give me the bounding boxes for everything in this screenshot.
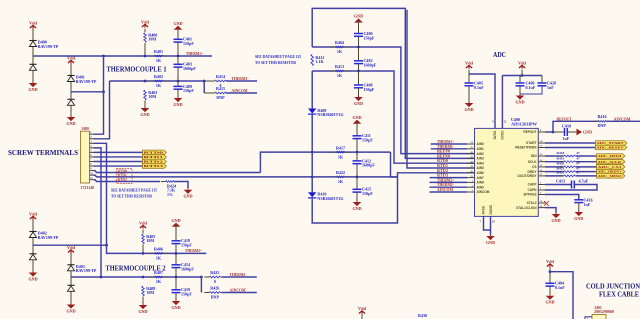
capacitor C403 1600pF xyxy=(174,62,197,71)
capacitor C400 150pF xyxy=(354,31,375,40)
wire D401 junction row xyxy=(71,91,104,93)
svg-text:2005290060: 2005290060 xyxy=(594,310,614,314)
ground above C401 xyxy=(173,21,182,32)
svg-text:GND: GND xyxy=(173,102,182,107)
net label RTD0 row xyxy=(437,158,448,163)
junction D402/pin3 xyxy=(105,244,108,247)
svg-text:THERM1-: THERM1- xyxy=(232,76,249,81)
net flag ADC_DRDY1 xyxy=(597,169,625,174)
diode D401 lower half xyxy=(67,99,74,105)
svg-text:1600pF: 1600pF xyxy=(364,63,377,68)
svg-text:R414: R414 xyxy=(216,74,225,79)
svg-text:ADC_SCLK: ADC_SCLK xyxy=(598,161,623,164)
U400 bottom pin names AVSS DGND xyxy=(482,204,494,214)
svg-text:Vdd: Vdd xyxy=(546,259,554,264)
diode D400 lower half xyxy=(29,64,36,70)
svg-text:GND: GND xyxy=(464,107,473,112)
wire D402 mid xyxy=(32,238,34,254)
svg-text:GND: GND xyxy=(545,300,554,305)
U400 right pin names xyxy=(515,130,537,210)
svg-text:0.1uF: 0.1uF xyxy=(555,285,565,290)
wire Vdd bottom stem xyxy=(361,314,363,319)
svg-text:C413: C413 xyxy=(556,178,565,183)
svg-text:FLEX CABLE: FLEX CABLE xyxy=(599,291,639,299)
svg-text:GND: GND xyxy=(486,240,495,245)
wire D401 stem xyxy=(70,64,72,76)
net flag ADC_CS1 xyxy=(597,165,625,170)
title THERMOCOUPLE 1 xyxy=(107,65,167,74)
junction REFOUT xyxy=(552,131,555,134)
net label REFOUT xyxy=(557,116,572,121)
power Vdd R400 xyxy=(141,19,149,27)
svg-text:GND: GND xyxy=(173,21,182,26)
svg-text:150pF: 150pF xyxy=(181,243,192,248)
resistor R404 1K xyxy=(331,40,349,54)
svg-text:THERM2-: THERM2- xyxy=(230,272,247,277)
svg-text:THERMOCOUPLE 1: THERMOCOUPLE 1 xyxy=(107,65,167,74)
junction C414/THERM2- xyxy=(175,276,178,279)
svg-text:1600pF: 1600pF xyxy=(362,163,375,168)
resistor R407 1K xyxy=(150,270,168,284)
capacitor C401 150pF xyxy=(174,37,195,46)
resistor R425 0 xyxy=(204,270,225,284)
svg-text:1uF: 1uF xyxy=(584,202,591,207)
net flag RTD3 xyxy=(143,164,167,169)
ground above C400 xyxy=(354,14,363,25)
svg-text:0.1uF: 0.1uF xyxy=(526,85,536,90)
wire C400 bottom lead xyxy=(358,36,360,47)
wire C414 bottom lead xyxy=(175,268,177,277)
wire C410 to gnd xyxy=(567,131,576,133)
resistor R405 10M xyxy=(142,234,156,244)
junction C411/R417 xyxy=(356,151,359,154)
net label AINCOM right xyxy=(614,116,631,121)
wire R414 out xyxy=(226,80,257,82)
svg-text:AIN8: AIN8 xyxy=(477,181,484,185)
capacitor C419 150pF xyxy=(172,287,193,296)
svg-text:RTD0: RTD0 xyxy=(144,151,165,155)
wire pin1 vertical xyxy=(94,56,104,134)
svg-text:REFOUT: REFOUT xyxy=(557,116,572,121)
net label THERM2- at ADC xyxy=(437,182,455,187)
svg-text:10M: 10M xyxy=(146,290,154,295)
svg-text:1%: 1% xyxy=(167,192,173,197)
junction C401/THERM1+ xyxy=(177,55,180,58)
resistor R401 1K xyxy=(150,49,168,63)
svg-text:1K: 1K xyxy=(338,154,344,159)
svg-text:GND: GND xyxy=(583,130,592,135)
power Vdd AVDD xyxy=(465,60,473,68)
junction R417 row xyxy=(311,151,314,154)
diode D402 lower half xyxy=(29,254,36,260)
wire ADC_CS1 left xyxy=(545,166,563,168)
svg-text:150pF: 150pF xyxy=(364,35,375,40)
net flag ADC_MISO xyxy=(597,174,625,179)
svg-text:R426: R426 xyxy=(210,286,219,291)
svg-text:47: 47 xyxy=(576,151,580,155)
capacitor C420 1uF xyxy=(538,80,557,89)
wire C401 bottom lead xyxy=(177,42,179,56)
junction THERM1+ / pin1 drop xyxy=(102,55,105,58)
svg-text:ADC: ADC xyxy=(493,50,506,59)
svg-text:AVDD: AVDD xyxy=(493,130,497,139)
wire R415 lead xyxy=(204,92,215,94)
svg-text:GND: GND xyxy=(574,216,583,221)
ground C416 xyxy=(574,211,583,221)
capacitor C410 1uF xyxy=(565,128,568,136)
wire AVSS down xyxy=(484,216,491,230)
wire DVDD drop xyxy=(501,76,503,129)
svg-text:RTD1: RTD1 xyxy=(144,155,165,159)
power Vdd D402 xyxy=(29,211,37,219)
svg-text:R419: R419 xyxy=(557,157,565,161)
svg-text:AINCOM: AINCOM xyxy=(437,187,453,192)
svg-text:1K: 1K xyxy=(338,179,344,184)
wire THERM2+ stub xyxy=(430,181,468,183)
wire ADC_DRDY1 left xyxy=(545,171,563,173)
svg-text:DOUT/DRDY: DOUT/DRDY xyxy=(518,174,538,178)
svg-text:C410: C410 xyxy=(562,124,571,129)
power Vdd D400 xyxy=(29,20,37,28)
svg-text:R418: R418 xyxy=(557,151,565,155)
diode D409 NSR20401T1G xyxy=(308,108,344,117)
diode D403 upper half xyxy=(67,265,74,271)
net label RTD3 row xyxy=(437,173,448,178)
U400 left pin stubs and numbers xyxy=(467,142,475,192)
svg-text:150pF: 150pF xyxy=(362,138,373,143)
svg-text:47: 47 xyxy=(576,171,580,175)
svg-text:R401: R401 xyxy=(154,49,163,54)
wire C419 top lead xyxy=(175,277,177,290)
label R423 xyxy=(557,171,580,175)
power Vdd DVDD xyxy=(518,60,526,68)
junction R403/THERM1- xyxy=(144,80,147,83)
svg-text:GND: GND xyxy=(140,112,149,117)
wire ADC_MOSI right xyxy=(576,155,597,157)
ground R424 xyxy=(183,188,192,198)
ground D400 xyxy=(28,82,37,92)
svg-text:R402: R402 xyxy=(154,74,163,79)
net label THERM2+ xyxy=(185,248,202,253)
junction C400/R404 xyxy=(357,46,360,49)
ground C408 xyxy=(354,96,363,106)
label R418 xyxy=(557,151,580,155)
wire R426 branch vertical xyxy=(200,277,202,293)
wire R407 row xyxy=(71,276,201,278)
svg-text:BAV199-TP: BAV199-TP xyxy=(38,235,59,240)
wire main vertical mid xyxy=(311,71,313,109)
net flag ADC_START xyxy=(596,141,627,146)
wire C412 top lead xyxy=(356,152,358,161)
svg-text:R407: R407 xyxy=(154,270,163,275)
wire pin8 to flag RTD3 xyxy=(94,165,143,167)
svg-text:Vdd: Vdd xyxy=(465,60,473,65)
connector J401 2005290060 xyxy=(585,306,614,319)
svg-text:ADC_MISO: ADC_MISO xyxy=(598,175,623,178)
svg-text:GND: GND xyxy=(183,194,192,199)
ground XTAL1 xyxy=(551,213,560,223)
svg-text:BAV199-TP: BAV199-TP xyxy=(76,79,97,84)
net label THERM1- at R414 xyxy=(232,76,249,81)
svg-text:CS: CS xyxy=(532,165,536,169)
svg-text:R425: R425 xyxy=(210,270,219,275)
svg-text:ADC_START: ADC_START xyxy=(597,141,624,145)
power Vdd D401 xyxy=(67,55,75,63)
net flag ADC_MOSI xyxy=(597,154,625,159)
svg-text:R417: R417 xyxy=(336,145,345,150)
svg-text:0.1uF: 0.1uF xyxy=(474,85,484,90)
junction C404/flex xyxy=(549,270,552,273)
op-amp U400 ADS1263IPW body xyxy=(475,117,539,217)
svg-text:1uF: 1uF xyxy=(563,136,570,141)
power Vdd R405 xyxy=(139,220,147,228)
svg-text:Vdd: Vdd xyxy=(139,220,147,225)
wire DGND down xyxy=(490,216,492,234)
wire pin5 to flag RTD0 xyxy=(94,151,143,153)
wire C418 bottom lead xyxy=(175,244,177,254)
resistor R403 10M xyxy=(144,90,158,100)
wire THERM2- stub xyxy=(430,186,468,188)
U400 top pin names AVDD DVDD xyxy=(493,130,504,140)
wire THERM1- stub xyxy=(431,148,467,150)
svg-text:RTD1: RTD1 xyxy=(118,174,127,178)
wire C404 to gnd xyxy=(549,286,551,294)
net label THERM1+ at ADC xyxy=(437,139,455,144)
svg-text:1K: 1K xyxy=(337,73,343,78)
wire R415 branch vertical xyxy=(203,81,205,93)
wire ADC_SCLK left xyxy=(545,161,563,163)
U400 left pin names xyxy=(477,142,490,194)
svg-text:BAV199-TP: BAV199-TP xyxy=(76,268,97,273)
junction C412/R422 xyxy=(356,176,359,179)
resistor R416 DNP xyxy=(593,120,611,122)
wire D403 mid xyxy=(70,271,72,285)
wire C405 lead xyxy=(468,74,470,83)
svg-text:Vdd: Vdd xyxy=(29,20,37,25)
wire C406 bottom lead xyxy=(519,86,521,94)
wire REFOUT stub xyxy=(545,131,553,133)
label R420 xyxy=(557,162,580,166)
wire R406 row xyxy=(107,245,207,253)
wire D402 stem xyxy=(32,220,34,232)
wire C402 bottom lead xyxy=(358,64,360,71)
wire Vdd2 stem xyxy=(521,70,523,76)
capacitor C405 0.1uF xyxy=(465,80,485,89)
wire pin11 to R424 xyxy=(94,180,161,182)
svg-text:TO SET THIS RESISTOR: TO SET THIS RESISTOR xyxy=(255,60,297,65)
svg-text:SEE DATASHEET PAGE 115: SEE DATASHEET PAGE 115 xyxy=(111,188,157,193)
svg-text:DVDD: DVDD xyxy=(501,130,505,140)
net label AINCOM at R415 xyxy=(232,88,248,93)
capacitor C404 0.1uF xyxy=(546,281,566,290)
power Vdd D403 xyxy=(67,245,75,253)
svg-text:R406: R406 xyxy=(154,247,163,252)
svg-text:R413: R413 xyxy=(335,64,344,69)
resistor R419 47 xyxy=(559,161,580,163)
wire R426 out xyxy=(222,292,257,294)
label C410 xyxy=(562,124,571,142)
resistor R415 DNP xyxy=(210,86,231,100)
svg-text:GND: GND xyxy=(66,308,75,313)
wire C415 top lead xyxy=(356,177,358,189)
capacitor C406 0.1uF xyxy=(516,81,536,90)
svg-text:ADS1263IPW: ADS1263IPW xyxy=(511,121,537,126)
svg-text:Vdd: Vdd xyxy=(518,60,526,65)
wire R400 bottom xyxy=(144,43,146,56)
svg-text:1600pF: 1600pF xyxy=(183,66,196,71)
wire Vdd to C404 xyxy=(549,267,551,283)
svg-text:1723140: 1723140 xyxy=(81,186,95,190)
svg-text:COLD JUNCTION: COLD JUNCTION xyxy=(586,283,640,291)
wire C403 top lead xyxy=(177,56,179,64)
svg-text:GND: GND xyxy=(171,305,180,310)
svg-text:TO SET THIS RESISTOR: TO SET THIS RESISTOR xyxy=(111,193,153,198)
no-connect X on XTAL2 xyxy=(544,201,549,206)
svg-text:AIN1: AIN1 xyxy=(477,147,484,151)
wire R417 to row6 xyxy=(391,152,398,177)
net labels dashed box RTD xyxy=(117,169,133,184)
note see datasheet (R412) xyxy=(255,54,301,65)
title ADC xyxy=(493,50,506,59)
wire main vertical below D410 xyxy=(312,173,474,223)
svg-text:AINCOM: AINCOM xyxy=(230,288,246,293)
svg-text:RTD2: RTD2 xyxy=(118,178,127,182)
ground C415 xyxy=(352,201,361,211)
resistor R420 47 xyxy=(559,166,580,168)
net label REFN0 xyxy=(437,153,450,158)
resistor R422 1K xyxy=(332,170,350,184)
svg-text:RTD3: RTD3 xyxy=(144,164,165,168)
ground C406 xyxy=(515,94,524,104)
svg-text:GND: GND xyxy=(354,14,363,19)
junction Vdd2 rail xyxy=(521,74,524,77)
power Vdd bottom center xyxy=(358,306,366,314)
svg-text:1K: 1K xyxy=(156,58,162,63)
wire C406 lead xyxy=(519,76,521,84)
svg-text:GND: GND xyxy=(28,87,37,92)
svg-text:CAPP: CAPP xyxy=(528,183,538,187)
svg-text:RTD0: RTD0 xyxy=(118,169,127,173)
capacitor C413 4.7uF xyxy=(572,181,575,189)
svg-text:XTAL1/CLKIN: XTAL1/CLKIN xyxy=(516,206,537,210)
wire row6 vertical xyxy=(407,10,475,168)
wire flex cable run xyxy=(550,272,573,319)
wire pin3 vertical to TC2+ xyxy=(94,143,107,245)
svg-text:150pF: 150pF xyxy=(364,87,375,92)
label D401 xyxy=(76,75,97,84)
resistor R421 47 xyxy=(559,171,580,173)
capacitor C402 1600pF xyxy=(354,58,377,67)
svg-text:DNP: DNP xyxy=(216,95,225,100)
wire BYPASS to C416 xyxy=(545,195,579,200)
wire R425 out xyxy=(222,276,257,278)
wire C411 bottom lead xyxy=(356,139,358,152)
wire C419 bottom lead xyxy=(175,293,177,300)
resistor R408 10M xyxy=(142,286,156,296)
diode D400 upper half xyxy=(29,41,36,47)
svg-text:DGND: DGND xyxy=(489,204,493,214)
svg-text:Vdd: Vdd xyxy=(358,306,366,311)
ground AVSS/DGND xyxy=(486,235,495,245)
J400 pins 1-11 xyxy=(90,131,94,180)
wire pin2 vertical R402 row start xyxy=(94,81,110,139)
wire THERM1+ stub xyxy=(431,143,467,145)
U400 bottom pin numbers xyxy=(480,221,496,224)
wire C416 to gnd xyxy=(578,203,580,211)
wire D400 stem xyxy=(32,29,34,41)
wire C409 bottom lead xyxy=(177,89,179,96)
wire THERM1+ row xyxy=(33,55,212,57)
svg-text:GND: GND xyxy=(138,309,147,314)
svg-text:R422: R422 xyxy=(336,170,345,175)
diode D401 upper half xyxy=(67,76,74,82)
wire pin4 vertical to TC2- xyxy=(94,148,102,277)
svg-text:AIN2: AIN2 xyxy=(477,152,484,156)
svg-text:AINCOM: AINCOM xyxy=(232,88,248,93)
label D403 xyxy=(76,264,97,273)
wire C401 top lead xyxy=(177,29,179,40)
svg-text:AINCOM: AINCOM xyxy=(614,116,631,121)
resistor R413 1K xyxy=(331,64,349,78)
svg-text:AINCOM: AINCOM xyxy=(477,190,490,194)
net label REFP0 xyxy=(437,149,450,154)
net label THERM2- at R425 xyxy=(230,272,247,277)
wire D401 mid xyxy=(70,82,72,100)
net label THERM1+ xyxy=(186,51,203,56)
wire D402 junction row xyxy=(33,244,107,246)
svg-text:R415: R415 xyxy=(216,86,225,91)
ground C405 xyxy=(464,102,473,112)
wire R405 top xyxy=(142,230,144,234)
wire pin10 bus xyxy=(94,175,312,177)
wire AINCOM stub xyxy=(430,191,468,193)
junction R425 branch xyxy=(200,276,203,279)
wire C415 bottom lead xyxy=(356,192,358,200)
power Vdd C404 xyxy=(546,259,554,267)
capacitor C411 150pF xyxy=(353,133,374,142)
svg-text:CAPN: CAPN xyxy=(527,188,537,192)
svg-text:150pF: 150pF xyxy=(183,41,194,46)
svg-text:Vdd: Vdd xyxy=(29,211,37,216)
diode D402 upper half xyxy=(29,232,36,238)
wire RESET net xyxy=(545,147,596,149)
wire CAPP row xyxy=(545,184,572,186)
wire Vdd1 to AVDD xyxy=(469,74,495,128)
svg-text:AIN5: AIN5 xyxy=(477,166,484,170)
wire R404 row to ADC xyxy=(312,47,474,154)
resistor R424 7.1K xyxy=(161,181,179,183)
net flag RTD0 xyxy=(143,150,167,155)
wire pin7 to flag RTD2 xyxy=(94,161,143,163)
wire RTD3 stub xyxy=(430,177,467,179)
wire pin6 to flag RTD1 xyxy=(94,156,143,158)
svg-text:AIN6: AIN6 xyxy=(477,171,484,175)
capacitor C414 1600pF xyxy=(172,262,195,271)
wire pin9 bus xyxy=(94,171,261,173)
ground C409 xyxy=(173,97,182,107)
ground above C411 xyxy=(352,115,361,126)
svg-text:AVSS: AVSS xyxy=(482,206,486,214)
wire R413 row to ADC xyxy=(312,71,474,163)
wire XTAL1 to gnd xyxy=(545,208,556,213)
svg-text:BYPASS: BYPASS xyxy=(524,193,537,197)
wire R408 bottom xyxy=(142,297,144,304)
label R421 xyxy=(557,166,580,170)
wire THERM1- row xyxy=(110,80,205,82)
resistor R418 47 xyxy=(559,155,580,157)
label D402 xyxy=(38,231,59,240)
wire START net xyxy=(545,142,596,144)
